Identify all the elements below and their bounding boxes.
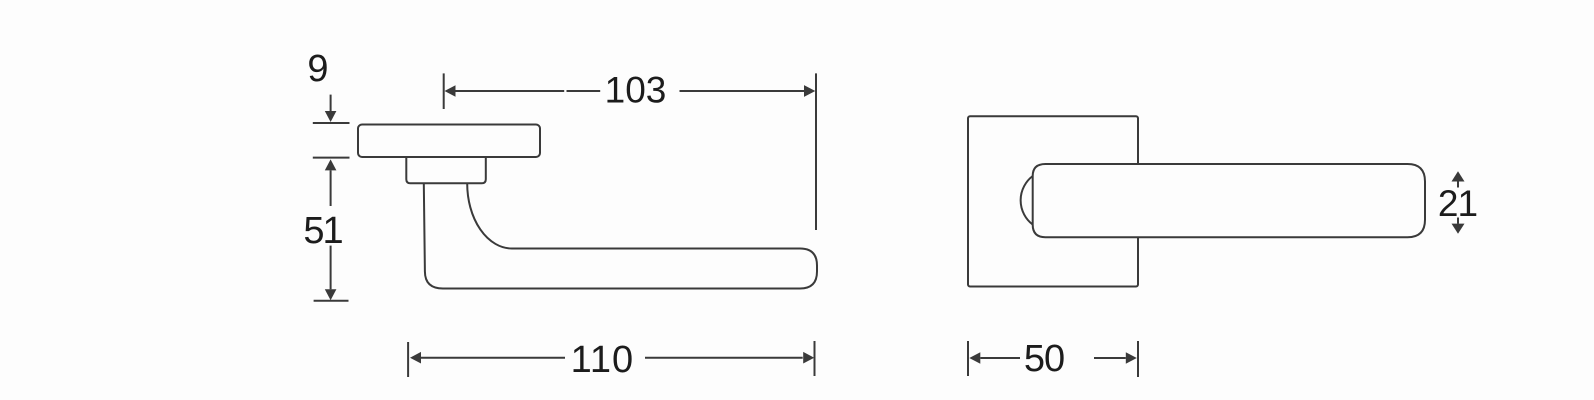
dimension 9: label <box>307 48 328 90</box>
svg-text:103: 103 <box>605 69 667 110</box>
dimension 51: bottom tick <box>314 300 349 302</box>
dimension 21: down arrow <box>1452 218 1465 234</box>
dimension 21: up arrow <box>1452 171 1465 187</box>
square rose front view (right view) <box>968 116 1138 286</box>
lever handle front view (covers square edge) <box>1033 164 1425 237</box>
dimension 110: label <box>571 339 635 381</box>
dimension 103: left tick <box>443 73 445 109</box>
dimension 51: upper arrow pointing up <box>325 159 337 206</box>
neck collar side view <box>406 157 486 183</box>
dimension 110: right tick <box>814 341 816 376</box>
dimension 50: right line with arrow pointing right <box>1094 352 1137 364</box>
svg-text:110: 110 <box>571 339 635 381</box>
dimension 9 / 51 shared tick (rose bottom) <box>313 157 350 159</box>
svg-text:50: 50 <box>1024 338 1064 380</box>
dimension 103: right line with arrow pointing right <box>680 85 816 97</box>
rose side view (left view) <box>358 125 540 158</box>
dimension 50: right tick <box>1137 341 1139 377</box>
dimension 110: left arrow pointing left <box>410 352 565 364</box>
dimension 103: right tick / extension line to lever end <box>815 73 817 230</box>
dimension 9: arrow line pointing down <box>325 95 337 122</box>
dimension 9: top tick (rose top) <box>313 122 350 124</box>
dimension 110: right line with arrow pointing right <box>645 352 814 364</box>
dimension 50: left arrow pointing left <box>969 352 1020 364</box>
dimension 50: label <box>1024 338 1064 380</box>
dimension 103: label <box>605 69 667 110</box>
dimension 51: lower arrow pointing down <box>325 246 337 301</box>
dimension 103: left arrow pointing left <box>445 85 565 97</box>
dimension 21: label <box>1438 183 1477 224</box>
dimension 51: label <box>303 210 342 252</box>
svg-text:9: 9 <box>307 48 328 90</box>
svg-text:51: 51 <box>303 210 342 252</box>
dimension 50: left tick <box>967 341 969 376</box>
dimension 110: left tick <box>407 342 409 377</box>
lever handle side view outline <box>424 183 817 288</box>
lever front view neck arc (ball detail at left end) <box>1021 176 1033 225</box>
dimension 103: short dash before label <box>567 90 601 92</box>
